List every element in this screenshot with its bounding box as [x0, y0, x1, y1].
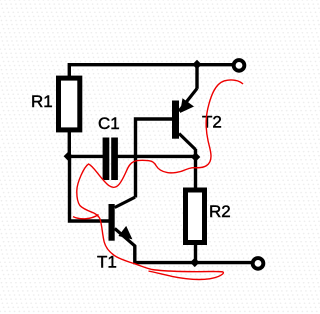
wire top rail	[69, 65, 233, 77]
wire mid left to C1	[67, 155, 105, 158]
svg-text:C1: C1	[98, 114, 120, 133]
node bottom rail junction	[190, 258, 199, 267]
node A junction	[64, 152, 73, 161]
red annotation main scribble	[77, 80, 243, 280]
wire R2 bottom stub	[194, 243, 197, 263]
terminal bottom right	[253, 258, 264, 269]
terminal top right	[234, 60, 245, 71]
wire R1 bottom stub	[68, 131, 71, 156]
wire node B to R2	[194, 157, 197, 191]
svg-text:R2: R2	[209, 202, 231, 221]
node top rail junction	[192, 60, 201, 69]
transistor T1	[109, 197, 136, 246]
red annotation hook spur	[73, 215, 99, 219]
svg-text:T2: T2	[202, 113, 222, 132]
wire T1 collector / T2 base vertical	[136, 119, 173, 198]
resistor R2	[186, 190, 205, 243]
wire T2 collector to node B	[194, 149, 197, 158]
wire T2 emitter up to rail	[195, 65, 198, 89]
svg-text:R1: R1	[31, 92, 53, 111]
transistor T2	[172, 89, 197, 150]
wire mid right C1 to node B	[117, 155, 196, 158]
resistor R1	[59, 78, 80, 130]
wire T1 emitter to bottom rail	[135, 246, 252, 263]
wire node A down to T1 base	[70, 155, 109, 221]
node B junction	[191, 152, 200, 161]
capacitor C1	[103, 138, 118, 181]
